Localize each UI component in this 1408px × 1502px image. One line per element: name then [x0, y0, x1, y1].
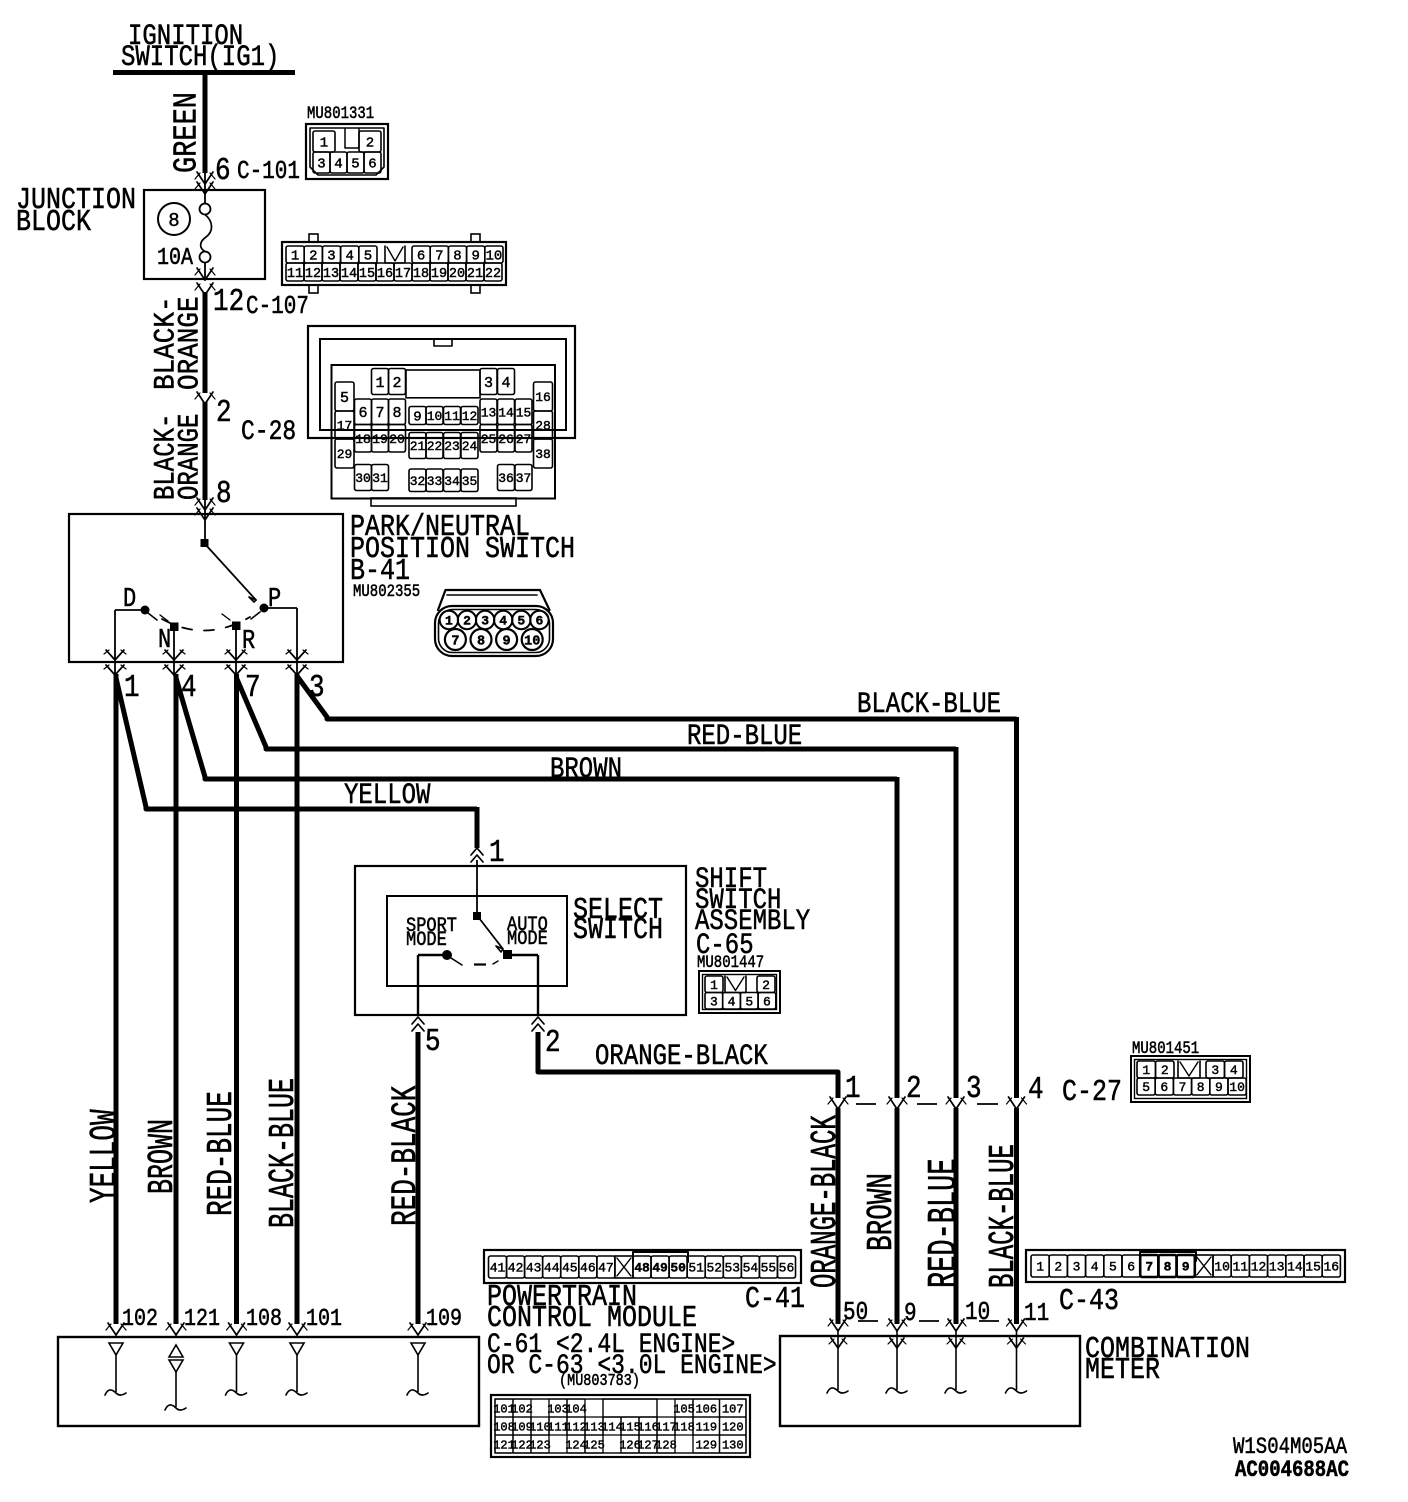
svg-text:1: 1	[845, 1071, 861, 1107]
svg-text:3: 3	[966, 1071, 982, 1107]
svg-text:AC004688AC: AC004688AC	[1235, 1457, 1349, 1483]
svg-text:123: 123	[529, 1438, 551, 1452]
svg-text:13: 13	[481, 405, 497, 420]
svg-text:6: 6	[763, 994, 771, 1009]
select switch	[387, 894, 663, 1016]
svg-text:YELLOW: YELLOW	[84, 1109, 127, 1203]
svg-text:6: 6	[215, 153, 231, 189]
svg-text:3: 3	[481, 614, 489, 629]
contact D	[115, 585, 157, 676]
svg-text:SWITCH: SWITCH	[573, 914, 663, 948]
svg-text:128: 128	[655, 1438, 677, 1452]
PCM pin 121	[165, 1304, 220, 1410]
svg-text:1: 1	[291, 249, 299, 265]
svg-text:RED-BLUE: RED-BLUE	[687, 721, 802, 754]
svg-text:3: 3	[1073, 1260, 1081, 1275]
svg-text:6: 6	[535, 614, 543, 629]
svg-text:2: 2	[906, 1071, 922, 1107]
meter pin 10	[945, 1299, 990, 1393]
svg-text:METER: METER	[1085, 1354, 1160, 1388]
select switch pin 1	[471, 835, 505, 916]
svg-text:6: 6	[1127, 1260, 1135, 1275]
svg-text:22: 22	[485, 267, 501, 282]
meter pin 9	[886, 1300, 917, 1393]
svg-text:18: 18	[355, 432, 371, 447]
connector face C-107	[282, 234, 506, 293]
svg-text:52: 52	[706, 1261, 722, 1276]
svg-text:ORANGE: ORANGE	[173, 414, 207, 500]
svg-text:9: 9	[1215, 1080, 1223, 1095]
svg-text:5: 5	[425, 1024, 441, 1060]
connector face C-28	[308, 326, 575, 506]
svg-text:4: 4	[345, 249, 353, 265]
powertrain control module box	[58, 1337, 479, 1426]
svg-text:24: 24	[462, 439, 478, 454]
svg-text:41: 41	[490, 1261, 506, 1276]
svg-text:9: 9	[413, 410, 421, 426]
vertical wire labels left	[84, 1078, 427, 1228]
svg-text:17: 17	[337, 419, 353, 434]
svg-text:C-101: C-101	[237, 158, 300, 186]
svg-text:ORANGE-BLACK: ORANGE-BLACK	[807, 1115, 847, 1288]
svg-text:6: 6	[368, 157, 376, 173]
svg-text:12: 12	[213, 284, 244, 320]
svg-text:104: 104	[565, 1402, 587, 1416]
wire BLACK-BLUE	[297, 674, 1017, 1324]
svg-text:8: 8	[168, 210, 179, 232]
svg-text:34: 34	[444, 474, 460, 489]
svg-text:9: 9	[471, 249, 479, 265]
svg-text:BROWN: BROWN	[550, 754, 622, 787]
svg-text:20: 20	[449, 267, 465, 282]
meter pin 50	[827, 1299, 868, 1393]
svg-text:1: 1	[1142, 1063, 1150, 1078]
connector C-107 pin 12	[195, 283, 309, 322]
svg-text:106: 106	[695, 1402, 717, 1416]
svg-text:11: 11	[1024, 1300, 1049, 1328]
switch output pins 1 4 7 3	[104, 650, 325, 706]
wire BROWN	[176, 674, 897, 1324]
svg-text:54: 54	[743, 1261, 759, 1276]
meter connector dashes	[858, 1320, 999, 1322]
svg-text:P: P	[268, 585, 281, 615]
svg-text:10: 10	[1214, 1260, 1230, 1275]
svg-text:118: 118	[673, 1420, 695, 1434]
svg-text:107: 107	[722, 1402, 744, 1416]
svg-text:C-41: C-41	[745, 1283, 805, 1317]
svg-text:35: 35	[462, 474, 478, 489]
svg-text:25: 25	[481, 432, 497, 447]
svg-text:38: 38	[535, 447, 551, 462]
svg-text:BROWN: BROWN	[143, 1119, 184, 1194]
svg-text:14: 14	[341, 267, 357, 282]
svg-text:42: 42	[508, 1261, 524, 1276]
svg-text:1: 1	[710, 978, 718, 993]
svg-text:36: 36	[498, 471, 514, 486]
svg-text:16: 16	[535, 390, 551, 405]
svg-text:2: 2	[392, 375, 401, 392]
svg-text:GREEN: GREEN	[169, 92, 207, 173]
connector face B-41 MU802355	[435, 590, 553, 656]
svg-text:MU801331: MU801331	[307, 104, 374, 124]
svg-text:1: 1	[489, 835, 505, 871]
svg-text:2: 2	[762, 978, 770, 993]
svg-text:6: 6	[1160, 1080, 1168, 1095]
svg-text:MODE: MODE	[406, 928, 447, 952]
svg-text:BLOCK: BLOCK	[16, 206, 91, 240]
PCM pin 102	[105, 1304, 158, 1395]
svg-text:50: 50	[843, 1299, 868, 1327]
wire BLACK-ORANGE upper segment	[150, 292, 207, 393]
svg-text:3: 3	[710, 994, 718, 1009]
wire RED-BLUE	[237, 674, 957, 1324]
svg-text:102: 102	[122, 1304, 158, 1332]
svg-text:22: 22	[427, 439, 443, 454]
svg-text:5: 5	[340, 390, 349, 407]
svg-text:30: 30	[355, 471, 371, 486]
svg-text:21: 21	[467, 267, 483, 282]
svg-text:9: 9	[503, 635, 511, 650]
svg-text:11: 11	[1232, 1260, 1248, 1275]
svg-text:MU802355: MU802355	[353, 582, 420, 602]
svg-text:26: 26	[498, 432, 514, 447]
svg-text:51: 51	[688, 1261, 704, 1276]
svg-text:55: 55	[761, 1261, 777, 1276]
svg-text:19: 19	[372, 432, 388, 447]
switch common contact and blade	[201, 516, 257, 602]
svg-text:16: 16	[377, 267, 393, 282]
svg-text:45: 45	[562, 1261, 578, 1276]
svg-text:SWITCH(IG1): SWITCH(IG1)	[121, 42, 279, 75]
svg-text:31: 31	[372, 471, 388, 486]
svg-text:8: 8	[392, 405, 401, 422]
vertical wire labels right	[807, 1115, 1025, 1288]
ignition switch (IG1) label	[113, 21, 295, 75]
svg-text:44: 44	[544, 1261, 560, 1276]
svg-text:28: 28	[535, 419, 551, 434]
svg-text:RED-BLUE: RED-BLUE	[202, 1091, 242, 1216]
PCM pin 108	[226, 1304, 283, 1395]
svg-text:56: 56	[779, 1261, 795, 1276]
svg-text:7: 7	[435, 249, 443, 265]
svg-text:21: 21	[410, 439, 426, 454]
svg-text:9: 9	[1182, 1260, 1190, 1275]
fuse 8 10A	[157, 190, 215, 280]
svg-text:27: 27	[516, 432, 532, 447]
connector face C-41 strip	[484, 1250, 801, 1283]
svg-text:1: 1	[375, 375, 384, 392]
svg-text:12: 12	[1251, 1260, 1267, 1275]
select switch pin 2 wire ORANGE-BLACK	[532, 1017, 838, 1098]
svg-text:10A: 10A	[157, 243, 194, 271]
svg-text:23: 23	[444, 439, 460, 454]
svg-text:3: 3	[327, 249, 335, 265]
wire YELLOW	[116, 674, 477, 1324]
svg-text:4: 4	[501, 375, 510, 392]
svg-text:10: 10	[427, 409, 443, 424]
svg-text:12: 12	[462, 409, 478, 424]
svg-text:15: 15	[1305, 1260, 1321, 1275]
svg-text:19: 19	[431, 267, 447, 282]
svg-text:8: 8	[1164, 1260, 1172, 1275]
svg-text:(MU803783): (MU803783)	[559, 1371, 640, 1391]
svg-text:BROWN: BROWN	[862, 1173, 902, 1251]
svg-text:2: 2	[1161, 1063, 1169, 1078]
junction block	[16, 184, 265, 279]
svg-text:20: 20	[389, 432, 405, 447]
meter pin 11	[1006, 1300, 1050, 1393]
connector face C-65 MU801447	[699, 971, 780, 1013]
shift switch assembly C-65 box	[355, 864, 810, 1015]
svg-text:8: 8	[477, 635, 485, 650]
svg-text:BLACK-BLUE: BLACK-BLUE	[264, 1078, 305, 1228]
wire BLACK-ORANGE lower segment	[149, 402, 207, 500]
svg-text:48: 48	[634, 1261, 650, 1276]
svg-text:130: 130	[722, 1438, 744, 1452]
svg-text:BLACK-BLUE: BLACK-BLUE	[985, 1144, 1025, 1288]
svg-text:29: 29	[337, 447, 353, 462]
svg-text:14: 14	[498, 405, 514, 420]
svg-text:109: 109	[426, 1304, 462, 1332]
svg-text:3: 3	[317, 157, 325, 173]
svg-text:4: 4	[1091, 1260, 1099, 1275]
svg-text:32: 32	[410, 474, 426, 489]
connector face C-27 MU801451	[1131, 1039, 1250, 1102]
svg-text:101: 101	[306, 1304, 342, 1332]
svg-text:4: 4	[1028, 1072, 1044, 1108]
svg-text:5: 5	[364, 249, 372, 265]
PCM pin 109	[407, 1304, 462, 1395]
connector C-27 crossing	[828, 1071, 1122, 1324]
svg-text:13: 13	[323, 267, 339, 282]
svg-text:33: 33	[427, 474, 443, 489]
svg-text:12: 12	[305, 267, 321, 282]
svg-text:10: 10	[524, 635, 540, 650]
svg-text:11: 11	[287, 267, 303, 282]
svg-text:ORANGE-BLACK: ORANGE-BLACK	[595, 1041, 769, 1074]
svg-text:11: 11	[444, 409, 460, 424]
svg-text:17: 17	[395, 267, 411, 282]
svg-text:RED-BLUE: RED-BLUE	[922, 1158, 968, 1288]
combination meter box	[780, 1285, 1250, 1426]
svg-text:5: 5	[745, 994, 753, 1009]
svg-text:ORANGE: ORANGE	[174, 296, 207, 390]
svg-text:49: 49	[652, 1261, 668, 1276]
PCM pin 101	[286, 1304, 342, 1395]
svg-text:129: 129	[695, 1438, 717, 1452]
svg-text:53: 53	[725, 1261, 741, 1276]
svg-text:C-107: C-107	[246, 293, 309, 321]
svg-text:14: 14	[1287, 1260, 1303, 1275]
svg-text:8: 8	[1197, 1080, 1205, 1095]
svg-text:102: 102	[511, 1402, 533, 1416]
svg-text:50: 50	[670, 1261, 686, 1276]
powertrain control module labels	[487, 1281, 805, 1391]
svg-text:2: 2	[1054, 1260, 1062, 1275]
park/neutral position switch B-41	[69, 511, 575, 662]
dashed arc between contacts	[162, 617, 250, 631]
svg-text:8: 8	[453, 249, 461, 265]
svg-text:C-27: C-27	[1062, 1076, 1122, 1110]
svg-text:4: 4	[1230, 1063, 1238, 1078]
svg-text:4: 4	[499, 614, 507, 629]
svg-text:3: 3	[484, 375, 493, 392]
svg-text:C-43: C-43	[1059, 1285, 1119, 1319]
svg-text:2: 2	[545, 1025, 561, 1061]
svg-text:47: 47	[598, 1261, 614, 1276]
svg-text:37: 37	[516, 471, 532, 486]
contact P	[251, 585, 297, 676]
svg-text:46: 46	[580, 1261, 596, 1276]
svg-text:4: 4	[728, 994, 736, 1009]
svg-text:6: 6	[358, 405, 367, 422]
svg-text:120: 120	[722, 1420, 744, 1434]
svg-text:YELLOW: YELLOW	[344, 780, 431, 813]
connector face C-43 strip	[1026, 1250, 1345, 1282]
svg-text:7: 7	[1145, 1260, 1153, 1275]
svg-text:1: 1	[1036, 1260, 1044, 1275]
svg-text:6: 6	[417, 249, 425, 265]
svg-text:5: 5	[1109, 1260, 1117, 1275]
svg-text:MU801447: MU801447	[697, 953, 764, 973]
part number W1S04M05AA	[1233, 1434, 1347, 1460]
svg-text:1: 1	[445, 614, 453, 629]
svg-text:10: 10	[485, 249, 502, 265]
connector face MU803783 table	[491, 1395, 750, 1457]
svg-text:C-28: C-28	[241, 416, 296, 448]
svg-text:1: 1	[320, 136, 328, 152]
svg-text:10: 10	[1229, 1080, 1245, 1095]
svg-text:119: 119	[695, 1420, 717, 1434]
select switch pin 5 wire RED-BLACK	[412, 1017, 441, 1324]
svg-text:2: 2	[463, 614, 471, 629]
svg-text:4: 4	[334, 157, 342, 173]
svg-text:5: 5	[517, 614, 525, 629]
svg-text:BLACK-BLUE: BLACK-BLUE	[857, 689, 1001, 722]
svg-text:7: 7	[375, 405, 384, 422]
svg-text:1: 1	[124, 670, 140, 706]
svg-text:125: 125	[583, 1438, 605, 1452]
svg-text:43: 43	[526, 1261, 542, 1276]
svg-text:10: 10	[965, 1299, 990, 1327]
connector C-101 pin 6	[195, 153, 300, 194]
contact N	[158, 615, 179, 676]
svg-text:121: 121	[184, 1304, 220, 1332]
wire GREEN from ignition switch	[169, 74, 207, 173]
part number AC004688AC	[1235, 1457, 1349, 1483]
svg-text:7: 7	[1179, 1080, 1187, 1095]
svg-text:108: 108	[246, 1304, 282, 1332]
svg-text:105: 105	[673, 1402, 695, 1416]
park/neutral position switch pin 8	[195, 476, 232, 520]
svg-text:7: 7	[451, 635, 459, 650]
svg-text:15: 15	[516, 405, 532, 420]
svg-text:2: 2	[366, 136, 374, 152]
contact R	[222, 614, 255, 676]
svg-text:MODE: MODE	[507, 927, 548, 951]
connector C-28 pin 2	[195, 392, 296, 448]
svg-text:13: 13	[1269, 1260, 1285, 1275]
svg-text:2: 2	[309, 249, 317, 265]
svg-text:3: 3	[1211, 1063, 1219, 1078]
svg-text:2: 2	[216, 395, 232, 431]
svg-text:8: 8	[216, 476, 232, 512]
svg-text:5: 5	[1142, 1080, 1150, 1095]
svg-text:5: 5	[351, 157, 359, 173]
svg-text:15: 15	[359, 267, 375, 282]
svg-text:N: N	[158, 626, 171, 656]
connector face C-101 MU801331	[306, 104, 388, 179]
svg-text:18: 18	[413, 267, 429, 282]
svg-text:16: 16	[1323, 1260, 1339, 1275]
